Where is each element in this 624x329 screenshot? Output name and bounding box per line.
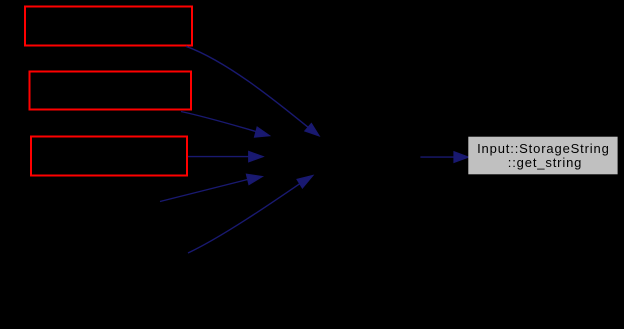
svg-text:Input::StorageString: Input::StorageString [477, 141, 610, 156]
caller node box (truncated, red outline) top [25, 7, 192, 46]
caller node box (truncated, red outline) bottom [31, 137, 187, 176]
node Input::StorageString::get_string (current, grey) [468, 137, 617, 175]
caller node box (truncated, red outline) middle [30, 72, 192, 110]
edge from bottom box to center node (horizontal) [188, 151, 263, 162]
edge from center node to Input::StorageString::get_string [420, 152, 468, 163]
edge from hidden node 4 to center node [160, 174, 263, 201]
svg-text:::get_string: ::get_string [508, 155, 583, 170]
edge from hidden node 5 to center node [188, 175, 313, 253]
edge from middle box to center node [181, 112, 270, 138]
edge from top box to center node [186, 46, 319, 136]
